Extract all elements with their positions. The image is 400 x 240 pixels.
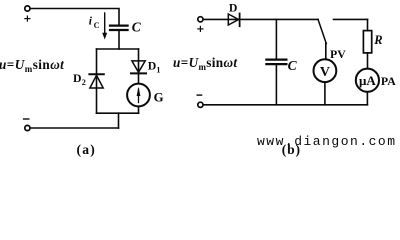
galvanometer G xyxy=(127,84,150,107)
wire left branch (a) xyxy=(96,49,98,113)
capacitor C (b) xyxy=(266,60,286,65)
wire top (a) xyxy=(30,9,119,26)
svg-text:D: D xyxy=(229,0,238,14)
capacitor C (a) xyxy=(110,26,128,30)
wire right branch upper (a) xyxy=(138,49,140,84)
wire loop bottom (a) xyxy=(97,112,139,114)
svg-text:PV: PV xyxy=(330,47,346,61)
wire cap to loop top (a) xyxy=(118,31,120,49)
svg-text:V: V xyxy=(320,65,330,80)
wire resistor to ammeter (b) xyxy=(367,53,369,69)
terminal - (a) xyxy=(25,125,30,130)
ammeter PA circle xyxy=(356,69,379,92)
terminal + (a) xyxy=(25,6,30,11)
terminal + (b) xyxy=(198,17,203,22)
plus sign (a) xyxy=(25,16,30,21)
svg-text:1: 1 xyxy=(156,66,160,75)
voltmeter branch wire (b) xyxy=(325,43,327,59)
diode D (b) xyxy=(228,14,238,25)
capacitor branch wire upper (b) xyxy=(275,19,277,58)
svg-text:C: C xyxy=(94,21,100,30)
wire bottom (a) xyxy=(30,127,118,129)
svg-text:2: 2 xyxy=(82,78,86,87)
svg-text:G: G xyxy=(154,90,164,104)
svg-text:u=Umsinωt: u=Umsinωt xyxy=(0,57,64,74)
plus sign (b) xyxy=(198,26,203,31)
svg-text:R: R xyxy=(373,33,382,47)
wire voltmeter to bottom (b) xyxy=(324,82,326,105)
voltmeter PV circle xyxy=(314,59,337,82)
terminal - (b) xyxy=(198,102,203,107)
switch blade (b) xyxy=(318,19,326,43)
svg-text:μA: μA xyxy=(359,73,376,88)
wire loop top (a) xyxy=(97,48,139,50)
svg-text:C: C xyxy=(132,20,142,35)
wire ammeter to bottom (b) xyxy=(366,92,368,105)
wire G to loop bottom xyxy=(138,106,140,113)
svg-text:www.diangon.com: www.diangon.com xyxy=(257,134,397,149)
svg-text:D: D xyxy=(73,71,82,85)
minus sign (a) xyxy=(24,118,29,120)
resistor R xyxy=(363,31,371,53)
current arrow iC xyxy=(104,13,106,34)
minus sign (b) xyxy=(197,94,201,96)
svg-text:D: D xyxy=(148,59,157,73)
capacitor branch wire lower (b) xyxy=(275,65,277,105)
svg-text:(a): (a) xyxy=(77,142,96,157)
svg-text:C: C xyxy=(288,58,298,73)
diode D2 xyxy=(89,73,103,75)
svg-text:PA: PA xyxy=(381,74,396,88)
wire terminal to switch (b) xyxy=(203,18,318,20)
wire stub down (a) xyxy=(118,113,120,128)
diode D1 xyxy=(132,61,145,72)
wire bottom (b) xyxy=(203,104,367,106)
wire corner down to resistor (b) xyxy=(367,19,369,30)
wire switch to corner (b) xyxy=(334,18,368,20)
